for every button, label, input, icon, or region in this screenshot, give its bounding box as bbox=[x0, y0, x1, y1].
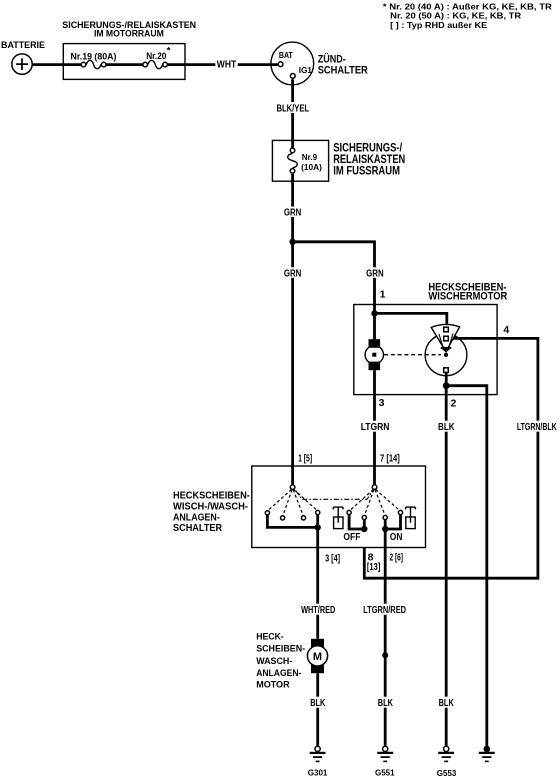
svg-text:SCHALTER: SCHALTER bbox=[318, 65, 368, 77]
svg-text:IG1: IG1 bbox=[299, 66, 313, 75]
svg-text:3: 3 bbox=[379, 397, 385, 409]
svg-text:WISCHERMOTOR: WISCHERMOTOR bbox=[428, 291, 507, 303]
svg-text:Nr.9: Nr.9 bbox=[302, 152, 318, 162]
svg-text:4: 4 bbox=[503, 324, 509, 336]
svg-text:BLK: BLK bbox=[439, 698, 455, 709]
svg-text:GRN: GRN bbox=[284, 208, 302, 219]
svg-text:BLK/YEL: BLK/YEL bbox=[277, 103, 310, 114]
svg-text:*: * bbox=[167, 46, 171, 57]
svg-text:ZÜND-: ZÜND- bbox=[318, 52, 346, 65]
svg-text:1 [5]: 1 [5] bbox=[298, 453, 312, 465]
svg-text:LTGRN: LTGRN bbox=[361, 422, 390, 433]
svg-text:BAT: BAT bbox=[279, 51, 293, 60]
svg-text:M: M bbox=[313, 651, 322, 663]
svg-text:SCHALTER: SCHALTER bbox=[173, 523, 223, 534]
svg-text:MOTOR: MOTOR bbox=[256, 680, 290, 690]
svg-text:OFF: OFF bbox=[343, 532, 360, 543]
svg-text:ANLAGEN-: ANLAGEN- bbox=[173, 512, 220, 523]
svg-text:G551: G551 bbox=[375, 768, 395, 777]
svg-text:7 [14]: 7 [14] bbox=[380, 453, 400, 465]
svg-text:[13]: [13] bbox=[367, 561, 381, 573]
svg-text:G553: G553 bbox=[437, 769, 457, 778]
svg-text:BLK: BLK bbox=[438, 422, 455, 433]
svg-text:BLK: BLK bbox=[378, 698, 394, 709]
svg-text:2 [6]: 2 [6] bbox=[390, 552, 404, 564]
svg-text:GRN: GRN bbox=[284, 268, 302, 279]
svg-text:HECKSCHEIBEN-: HECKSCHEIBEN- bbox=[173, 490, 250, 501]
svg-text:IM MOTORRAUM: IM MOTORRAUM bbox=[94, 29, 164, 40]
svg-text:1: 1 bbox=[380, 288, 386, 300]
svg-text:Nr.19 (80A): Nr.19 (80A) bbox=[71, 52, 117, 63]
svg-text:G301: G301 bbox=[308, 768, 328, 777]
svg-text:[ ] : Typ RHD außer KE: [ ] : Typ RHD außer KE bbox=[390, 20, 487, 30]
svg-text:LTGRN/BLK: LTGRN/BLK bbox=[517, 422, 557, 433]
svg-text:BATTERIE: BATTERIE bbox=[1, 40, 45, 51]
svg-text:BLK: BLK bbox=[310, 698, 326, 709]
svg-text:WASCH-: WASCH- bbox=[256, 656, 292, 666]
svg-text:SCHEIBEN-: SCHEIBEN- bbox=[256, 644, 305, 654]
svg-text:3 [4]: 3 [4] bbox=[325, 552, 340, 564]
svg-text:2: 2 bbox=[451, 397, 457, 409]
svg-text:WHT: WHT bbox=[217, 60, 236, 71]
svg-text:HECK-: HECK- bbox=[256, 631, 284, 641]
svg-text:Nr.20: Nr.20 bbox=[146, 51, 166, 62]
svg-text:LTGRN/RED: LTGRN/RED bbox=[363, 605, 406, 616]
svg-text:ANLAGEN-: ANLAGEN- bbox=[256, 668, 301, 678]
svg-text:IM FUSSRAUM: IM FUSSRAUM bbox=[333, 164, 400, 178]
svg-text:WISCH-/WASCH-: WISCH-/WASCH- bbox=[173, 502, 248, 513]
svg-text:WHT/RED: WHT/RED bbox=[301, 605, 335, 616]
svg-text:(10A): (10A) bbox=[301, 162, 322, 172]
svg-text:ON: ON bbox=[390, 532, 403, 543]
svg-text:GRN: GRN bbox=[366, 268, 384, 279]
